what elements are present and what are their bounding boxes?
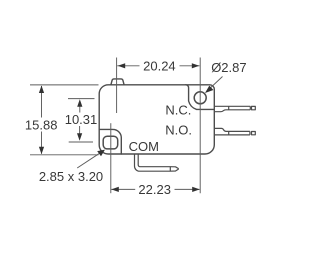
svg-text:20.24: 20.24 [143, 58, 176, 73]
extension line: right holes center (20.24 / 22.23 right) [199, 58, 201, 194]
svg-text:Ø2.87: Ø2.87 [211, 60, 246, 75]
mounting hole dia 2.87 (top right) [194, 92, 206, 104]
extension line: bottom hole center (22.23 left) [110, 123, 112, 193]
extension line: body top (15.88) [30, 84, 99, 86]
arrowhead 20.24 left [118, 63, 126, 68]
svg-text:COM: COM [129, 139, 159, 154]
arrowhead 22.23 left [111, 187, 119, 192]
leader line dia 2.87 [208, 77, 223, 91]
extension line: bottom hole center level (10.31 bottom) [69, 141, 93, 143]
leader line 2.85 x 3.20 [77, 152, 101, 168]
svg-text:15.88: 15.88 [25, 117, 58, 132]
terminal N.C. (top right) blade [214, 105, 250, 107]
arrowhead 15.88 down [39, 147, 44, 155]
dimension line 15.88 [41, 86, 43, 154]
arrow shaft 10.31 down [79, 126, 81, 135]
plunger button on top [111, 79, 124, 85]
arrow shaft 10.31 up [79, 105, 81, 113]
arrowhead leader dia 2.87 [205, 86, 213, 93]
terminal COM (bottom, bent) [134, 154, 178, 171]
extension line: body bottom (15.88) [30, 154, 99, 156]
arrowhead leader 2.85 x 3.20 [97, 150, 105, 157]
arrowhead 10.31 up [77, 99, 82, 107]
svg-text:10.31: 10.31 [65, 112, 98, 127]
svg-text:N.O.: N.O. [165, 123, 192, 138]
bottom-left mounting boss outline [99, 129, 121, 154]
arrowhead 15.88 up [39, 86, 44, 94]
mounting hole 2.85 x 3.20 (bottom left) [103, 136, 118, 149]
svg-text:2.85 x 3.20: 2.85 x 3.20 [39, 169, 103, 184]
dimension line 22.23 [111, 188, 199, 190]
switch body outline [99, 85, 214, 154]
extension line: top hole center level (10.31 top) [68, 98, 95, 100]
dimension line 20.24 [117, 65, 199, 67]
top-right mounting boss outline [186, 85, 215, 110]
extension line: plunger center (20.24 left) [116, 58, 118, 114]
svg-text:N.C.: N.C. [165, 102, 191, 117]
arrowhead 10.31 down [77, 133, 82, 141]
arrowhead 20.24 right [192, 63, 200, 68]
terminal N.O. (middle right) blade [214, 128, 250, 131]
svg-text:22.23: 22.23 [138, 182, 171, 197]
arrowhead 22.23 right [192, 187, 200, 192]
